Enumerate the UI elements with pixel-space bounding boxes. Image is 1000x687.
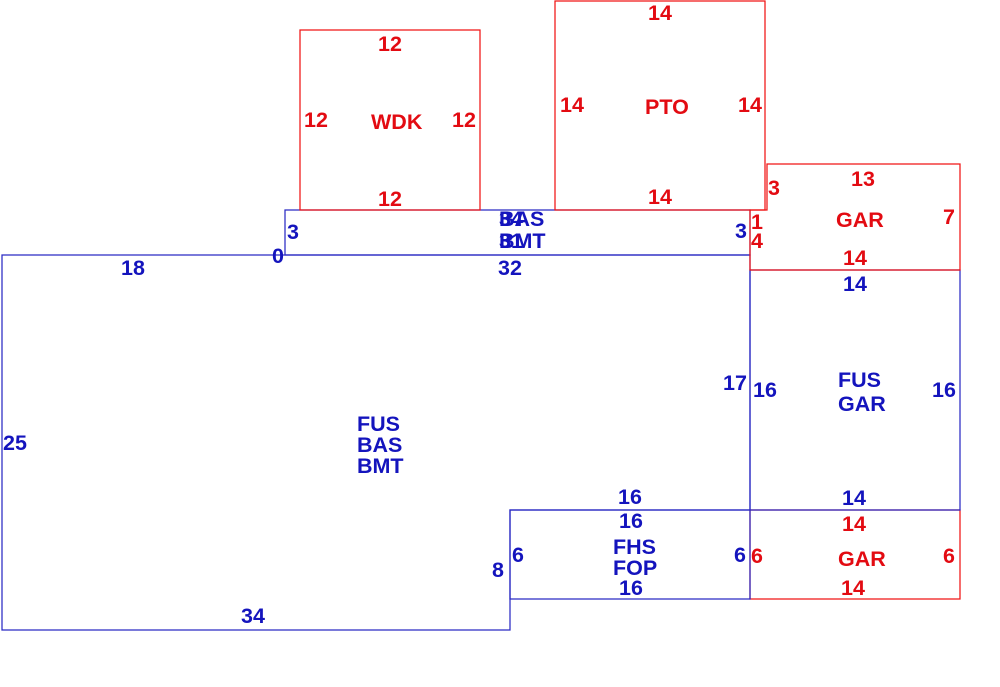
svg-text:6: 6 xyxy=(512,543,524,567)
area polygon GAR top-right xyxy=(750,164,960,270)
svg-text:12: 12 xyxy=(378,32,402,56)
svg-text:12: 12 xyxy=(452,108,476,132)
area polygon PTO xyxy=(555,1,765,210)
svg-text:13: 13 xyxy=(851,167,875,191)
svg-text:14: 14 xyxy=(843,246,867,270)
svg-text:14: 14 xyxy=(738,93,762,117)
svg-text:16: 16 xyxy=(932,378,956,402)
svg-text:16: 16 xyxy=(753,378,777,402)
svg-text:WDK: WDK xyxy=(371,110,423,134)
svg-text:12: 12 xyxy=(378,187,402,211)
svg-text:12: 12 xyxy=(304,108,328,132)
svg-text:34: 34 xyxy=(241,604,265,628)
svg-text:PTO: PTO xyxy=(645,95,689,119)
svg-text:GAR: GAR xyxy=(838,392,886,416)
area polygon GAR bottom-right xyxy=(750,510,960,599)
area polygon FUS GAR xyxy=(750,270,960,510)
svg-text:6: 6 xyxy=(751,544,763,568)
svg-text:32: 32 xyxy=(498,256,522,280)
svg-text:14: 14 xyxy=(842,512,866,536)
svg-text:25: 25 xyxy=(3,431,27,455)
svg-text:4: 4 xyxy=(751,229,763,253)
svg-text:18: 18 xyxy=(121,256,145,280)
svg-text:BMT: BMT xyxy=(357,454,404,478)
svg-text:6: 6 xyxy=(943,544,955,568)
svg-text:BAS: BAS xyxy=(499,207,544,231)
svg-text:0: 0 xyxy=(272,244,284,268)
svg-text:16: 16 xyxy=(618,485,642,509)
svg-text:14: 14 xyxy=(648,1,672,25)
area polygon WDK xyxy=(300,30,480,210)
svg-text:14: 14 xyxy=(560,93,584,117)
svg-text:14: 14 xyxy=(843,272,867,296)
svg-text:17: 17 xyxy=(723,371,747,395)
svg-text:6: 6 xyxy=(734,543,746,567)
area polygon FUS BAS BMT main xyxy=(2,255,750,630)
svg-text:14: 14 xyxy=(841,576,865,600)
svg-text:14: 14 xyxy=(648,185,672,209)
svg-text:14: 14 xyxy=(842,486,866,510)
svg-text:BMT: BMT xyxy=(499,229,546,253)
svg-text:7: 7 xyxy=(943,205,955,229)
svg-text:3: 3 xyxy=(735,219,747,243)
svg-text:3: 3 xyxy=(768,176,780,200)
svg-text:3: 3 xyxy=(287,220,299,244)
svg-text:16: 16 xyxy=(619,509,643,533)
area polygon BAS BMT strip xyxy=(285,210,750,255)
svg-text:GAR: GAR xyxy=(838,547,886,571)
svg-text:16: 16 xyxy=(619,576,643,600)
svg-text:GAR: GAR xyxy=(836,208,884,232)
svg-text:8: 8 xyxy=(492,558,504,582)
area polygon FHS FOP xyxy=(510,510,750,599)
svg-text:FUS: FUS xyxy=(838,368,881,392)
